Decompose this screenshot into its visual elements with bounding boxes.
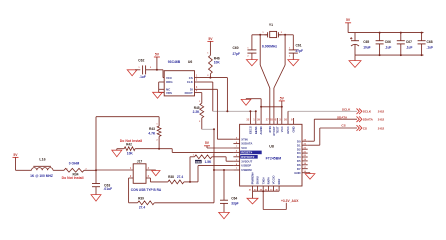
power symbol 5V (EEPROM) <box>154 56 160 58</box>
svg-text:RD#: RD# <box>277 178 281 184</box>
svg-text:0 OHM: 0 OHM <box>69 162 80 166</box>
svg-text:5V: 5V <box>13 153 18 157</box>
svg-text:CS: CS <box>363 126 367 130</box>
wire CS <box>320 127 357 129</box>
ground (R42) <box>112 150 122 157</box>
resistor R46 10K <box>209 55 213 73</box>
node VBUS junction <box>95 169 97 171</box>
svg-text:.1uF: .1uF <box>139 75 146 79</box>
highlighted pin RSTOUT# <box>240 155 258 159</box>
capacitor C65 10uF (polarized) <box>354 33 356 41</box>
capacitor C62 .1uF <box>142 65 144 74</box>
svg-text:C64: C64 <box>231 197 237 201</box>
chip bottom pins <box>252 186 254 191</box>
svg-text:SI/WU: SI/WU <box>256 176 260 184</box>
wire CLK net <box>200 81 213 83</box>
svg-text:2.2K: 2.2K <box>193 110 200 114</box>
wire crystal left leg to XTIN <box>259 35 261 65</box>
svg-text:1K @ 100 MHZ: 1K @ 100 MHZ <box>30 174 53 178</box>
capacitor C67 .1uF <box>400 33 402 41</box>
power symbol 5V (left input) <box>13 156 19 158</box>
svg-text:CS: CS <box>189 76 193 80</box>
svg-text:Y1: Y1 <box>269 23 273 27</box>
wire pin4 to gnd <box>146 169 156 171</box>
svg-text:C62: C62 <box>138 59 144 63</box>
EEPROM U6 93C46B <box>164 71 194 96</box>
svg-text:R42: R42 <box>126 143 132 147</box>
svg-text:U6: U6 <box>188 60 192 64</box>
ground (USB shell) <box>152 171 160 176</box>
svg-text:XTIN: XTIN <box>241 137 247 141</box>
ground (AGND) <box>241 99 251 105</box>
wire riser x=214 <box>213 129 215 203</box>
svg-text:2-B2: 2-B2 <box>378 118 385 122</box>
wire <box>53 169 64 171</box>
ground (C60) <box>246 60 257 66</box>
svg-text:VCC: VCC <box>280 126 284 132</box>
svg-text:USBDP: USBDP <box>241 164 251 168</box>
resistor R45 2.2K <box>200 103 204 118</box>
op-amp U8 FT245BM main IC <box>240 124 302 186</box>
wire GND right <box>308 172 310 174</box>
capacitor C64 33pF <box>223 170 225 200</box>
svg-text:TEST: TEST <box>275 126 279 133</box>
wire pin2 D- <box>129 177 134 179</box>
svg-text:93C46B: 93C46B <box>168 60 181 64</box>
svg-text:RXF#: RXF# <box>267 177 271 185</box>
node <box>156 69 158 71</box>
wire bottom rail <box>355 54 424 56</box>
chip right pins D0-D7 GND <box>302 140 308 142</box>
wire crystal left to C60 <box>252 34 268 36</box>
svg-text:C66: C66 <box>385 40 391 44</box>
svg-text:5V: 5V <box>346 18 351 22</box>
power symbol 5V (chip VCC) <box>279 100 285 102</box>
resistor R42 10K Do Not Install <box>117 148 124 150</box>
wire DI net <box>200 88 217 90</box>
ground (EEPROM) <box>153 92 163 98</box>
svg-text:5V: 5V <box>280 96 285 100</box>
svg-text:.01uF: .01uF <box>104 187 113 191</box>
highlighted pin RESET# <box>240 151 262 155</box>
svg-text:.1uF: .1uF <box>406 45 413 49</box>
svg-text:J17: J17 <box>137 160 143 164</box>
svg-text:27pF: 27pF <box>296 49 303 53</box>
wire crystal right leg to XTOUT <box>284 35 286 65</box>
wire D+ junction <box>184 181 198 183</box>
svg-text:R38: R38 <box>168 175 174 179</box>
svg-text:C60: C60 <box>233 46 239 50</box>
svg-text:VCCIO: VCCIO <box>272 175 276 185</box>
capacitor C68 .1uF <box>421 33 423 41</box>
capacitor C63 .01uF <box>95 170 97 183</box>
svg-text:3V3OUT: 3V3OUT <box>241 159 252 163</box>
svg-text:DOUT: DOUT <box>185 91 193 95</box>
wire +3.3V_AUX stub <box>262 191 264 209</box>
power symbol 5V (cap bank) <box>345 22 351 24</box>
wire VBUS up-over to R43 <box>95 117 97 171</box>
ground (C61) <box>288 60 299 66</box>
EEPROM right pin stubs <box>195 77 201 79</box>
svg-text:L16: L16 <box>39 158 45 162</box>
resistor R39 27.4 <box>138 201 155 205</box>
svg-text:2-B2: 2-B2 <box>378 110 385 114</box>
svg-text:10K: 10K <box>214 60 221 64</box>
resistor R34 0 OHM Do Not Install <box>64 168 84 172</box>
svg-text:CS: CS <box>341 123 345 127</box>
wire EESK drop <box>255 111 257 124</box>
ground (chip right) <box>305 174 315 180</box>
inductor L16 1K @ 100 MHZ <box>32 168 54 171</box>
resistor R43 4.7K <box>157 126 161 136</box>
svg-text:1.5K: 1.5K <box>205 160 212 164</box>
svg-text:TXE#: TXE# <box>261 177 265 184</box>
power symbol 5V (VCC row) <box>204 145 210 147</box>
wire ORG/NC/VRS to gnd <box>158 82 160 92</box>
svg-text:SCLK: SCLK <box>342 107 351 111</box>
svg-text:GND: GND <box>294 171 300 175</box>
svg-text:ORG: ORG <box>166 80 173 84</box>
svg-text:Do Not Install: Do Not Install <box>62 176 84 180</box>
wire RESET# net <box>135 148 172 150</box>
wire USBDM <box>214 169 233 171</box>
wire bottom rail <box>253 190 280 192</box>
wire crystal right to C61 <box>278 34 293 36</box>
svg-text:27.4: 27.4 <box>139 206 145 210</box>
svg-text:SCLK: SCLK <box>363 110 372 114</box>
svg-text:10uF: 10uF <box>363 45 370 49</box>
svg-text:EESK: EESK <box>254 126 258 134</box>
wire top rail <box>348 32 423 34</box>
capacitor C66 .1uF <box>379 33 381 41</box>
svg-text:XSDATA: XSDATA <box>241 142 252 146</box>
wire EESK/SCLK gray bus <box>213 110 256 112</box>
resistor R38 27.4 <box>168 180 184 184</box>
wire AGND drop <box>260 99 262 125</box>
svg-text:VCC: VCC <box>166 76 173 80</box>
svg-text:SDATA: SDATA <box>363 118 374 122</box>
wire D- to riser <box>154 202 214 204</box>
svg-text:PWREN#: PWREN# <box>251 172 255 184</box>
svg-text:CLK: CLK <box>187 80 194 84</box>
svg-text:FT245BM: FT245BM <box>266 157 282 161</box>
ground (C63) <box>91 195 101 202</box>
svg-text:.1uF: .1uF <box>427 45 434 49</box>
svg-text:6.000MHz: 6.000MHz <box>262 45 277 49</box>
node CS/R46 <box>209 77 211 79</box>
svg-text:AVCC: AVCC <box>286 126 290 134</box>
wire CS net <box>200 77 227 79</box>
node VCCIO <box>262 190 264 192</box>
wire <box>16 169 32 171</box>
resistor R40 1.5K <box>189 157 191 182</box>
svg-text:C65: C65 <box>363 40 369 44</box>
svg-text:27pF: 27pF <box>233 52 240 56</box>
svg-text:5V: 5V <box>155 52 160 56</box>
svg-text:+3.3V_AUX: +3.3V_AUX <box>281 199 299 203</box>
svg-text:C67: C67 <box>406 40 412 44</box>
svg-text:.1uF: .1uF <box>385 45 392 49</box>
wire to USB pin1 <box>84 169 96 171</box>
ground (chip bottom) <box>247 198 258 204</box>
svg-text:C61: C61 <box>296 44 302 48</box>
ground (C62 left) <box>127 70 137 76</box>
wire AVCC link <box>261 106 282 108</box>
wire <box>135 69 140 71</box>
svg-text:10K: 10K <box>127 152 134 156</box>
svg-text:C68: C68 <box>427 40 433 44</box>
pin stub GND top <box>293 118 295 124</box>
ground (cap bank) <box>354 55 356 61</box>
svg-text:R43: R43 <box>149 127 155 131</box>
svg-text:R39: R39 <box>138 196 144 200</box>
wire VCC row <box>207 147 233 149</box>
power symbol 5V (R46) <box>207 40 213 42</box>
pin stub TEST <box>276 118 278 124</box>
svg-text:VRS: VRS <box>166 91 172 95</box>
wire <box>146 69 163 71</box>
svg-text:AGND: AGND <box>259 126 263 134</box>
wire (gray) R45 to USBDM riser <box>202 128 214 130</box>
svg-text:5V: 5V <box>205 141 210 145</box>
wire SDATA <box>314 118 357 120</box>
svg-text:USBDM: USBDM <box>241 168 252 172</box>
svg-text:RESET#: RESET# <box>241 151 252 155</box>
svg-text:SDATA: SDATA <box>337 116 348 120</box>
wire pin3 D+ <box>146 177 150 179</box>
svg-text:R40: R40 <box>196 160 202 164</box>
wire DOUT net <box>200 92 202 94</box>
svg-text:5V: 5V <box>208 37 213 41</box>
ground (C64) <box>219 212 230 218</box>
svg-text:VCC: VCC <box>241 146 247 150</box>
svg-text:33pF: 33pF <box>231 201 238 205</box>
svg-text:2-B2: 2-B2 <box>378 126 385 130</box>
wire SCLK drop (pin AVCC) <box>287 111 289 124</box>
svg-text:CON USB TYP B RA: CON USB TYP B RA <box>131 188 162 192</box>
capacitor C61 27pF <box>292 35 294 50</box>
svg-text:U8: U8 <box>269 145 274 149</box>
svg-text:27.4: 27.4 <box>177 175 183 179</box>
capacitor C60 27pF <box>251 35 253 50</box>
svg-text:EECS: EECS <box>249 126 253 134</box>
EEPROM left pin stubs <box>159 81 165 83</box>
connector J17 CON USB TYP B RA <box>133 164 146 184</box>
node RESET#/R43 <box>158 148 160 150</box>
svg-text:RSTOUT#: RSTOUT# <box>241 155 254 159</box>
svg-text:4.7K: 4.7K <box>148 132 156 136</box>
svg-text:GND: GND <box>292 126 296 132</box>
wire EECS drop <box>249 111 251 124</box>
